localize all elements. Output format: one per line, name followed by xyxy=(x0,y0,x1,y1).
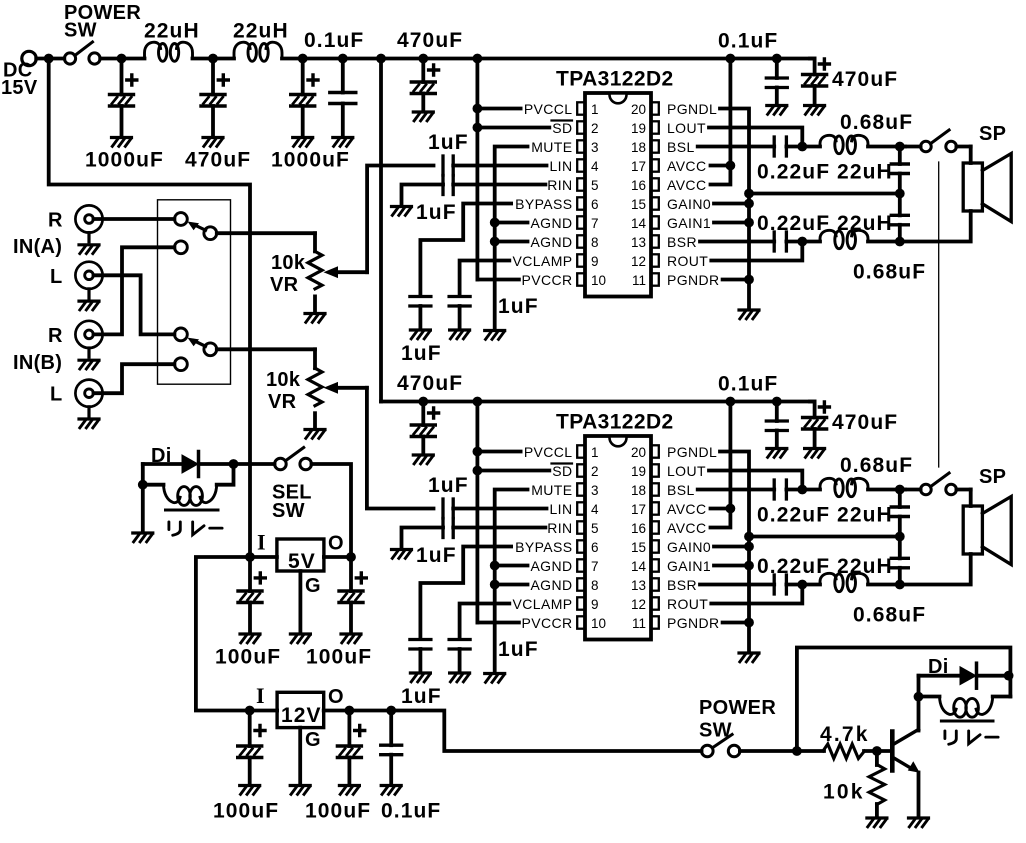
RCA jack L IN(B) xyxy=(75,380,102,416)
svg-text:0.68uF: 0.68uF xyxy=(853,604,926,627)
svg-text:20: 20 xyxy=(631,445,646,460)
wire AVCC feed (upper) xyxy=(711,59,731,185)
contact B1 (L of IN A) xyxy=(175,328,188,341)
relay2 coil right lead xyxy=(993,695,1011,699)
contact A2 (R of IN B) xyxy=(175,241,188,254)
svg-text:MUTE: MUTE xyxy=(531,482,572,498)
svg-text:470uF: 470uF xyxy=(832,411,898,434)
wire PGNDR pin11 (lower) xyxy=(723,621,749,625)
svg-text:18: 18 xyxy=(631,483,646,498)
svg-text:13: 13 xyxy=(631,235,646,250)
wire relay2 diode anode xyxy=(919,674,961,678)
svg-text:RIN: RIN xyxy=(547,520,572,536)
svg-text:VCLAMP: VCLAMP xyxy=(513,253,573,269)
node LOUT/BSL (upper) xyxy=(797,142,807,152)
wire PVCC vertical (upper) xyxy=(475,59,479,280)
node 0.1uF AVCC (lower) xyxy=(772,397,782,407)
node rail split to lower block xyxy=(376,54,386,64)
ground 0.1uF 12V xyxy=(381,786,401,795)
node relay1 coil left xyxy=(138,480,148,490)
svg-text:SP: SP xyxy=(979,123,1006,145)
inductor 22uH ROUT (upper) xyxy=(820,230,868,248)
wire DC input to switch xyxy=(36,57,64,61)
capacitor 0.22uF BSR bootstrap (lower) xyxy=(773,575,776,594)
pin stub 18 (lower) xyxy=(651,483,659,495)
capacitor 0.1uF AVCC (lower) stem xyxy=(775,402,779,422)
svg-text:PVCCR: PVCCR xyxy=(521,272,572,288)
svg-text:1uF: 1uF xyxy=(416,544,457,567)
capacitor 100uF 5V-out stem xyxy=(349,557,353,591)
svg-text:6: 6 xyxy=(591,540,599,555)
pin stub 11 (lower) xyxy=(651,616,659,628)
svg-text:12: 12 xyxy=(631,597,646,612)
node base drive xyxy=(792,746,802,756)
node relay2 coil left xyxy=(914,692,924,702)
capacitor C3 1000uF (stem) xyxy=(301,59,305,95)
svg-text:AVCC: AVCC xyxy=(667,501,706,517)
node filter mid (lower) xyxy=(895,532,905,542)
svg-text:22uH: 22uH xyxy=(144,20,200,43)
wire AGND pin8 (lower) xyxy=(495,583,528,587)
relay2 coil underline xyxy=(941,720,993,723)
wire MUTE to ground (lower) xyxy=(495,490,528,674)
wire 12V to POWER SW xyxy=(391,711,701,752)
node AGND8 (lower) xyxy=(490,580,500,590)
ground jack L IN(A) xyxy=(79,301,99,310)
wire to pin2 SD (upper) xyxy=(477,126,549,130)
wire ROUT pin12 (lower) xyxy=(711,585,802,604)
node GAIN0 (lower) xyxy=(744,542,754,552)
wire to pin2 SD (lower) xyxy=(477,469,549,473)
wire AGND pin7 (upper) xyxy=(495,221,528,225)
inductor 22uH LOUT (upper) xyxy=(820,135,868,153)
capacitor 100uF 5V-in stem xyxy=(248,557,252,591)
capacitor C1 1000uF (stem) xyxy=(120,59,124,95)
wire speaker return (lower) xyxy=(900,554,971,585)
svg-text:SD: SD xyxy=(552,463,572,479)
svg-text:SP: SP xyxy=(979,466,1006,488)
node 12V input xyxy=(245,706,255,716)
svg-text:TPA3122D2: TPA3122D2 xyxy=(556,411,674,434)
svg-text:SW: SW xyxy=(272,500,305,522)
node 470uF rail cap (upper) xyxy=(418,54,428,64)
node 0.1uF 12V xyxy=(386,706,396,716)
pin stub 17 (upper) xyxy=(651,159,659,171)
svg-text:I: I xyxy=(257,530,266,555)
svg-text:0.68uF: 0.68uF xyxy=(853,261,926,284)
wire DC to regulator input xyxy=(49,59,250,558)
ground 100uF 12V-out xyxy=(339,786,359,795)
wire 5V ground lead xyxy=(298,571,302,634)
svg-text:LIN: LIN xyxy=(550,501,573,517)
ground 470uF rail cap (lower) xyxy=(413,455,433,464)
svg-text:17: 17 xyxy=(631,502,646,517)
svg-text:PVCCR: PVCCR xyxy=(521,615,572,631)
svg-text:9: 9 xyxy=(591,254,599,269)
DC input terminal xyxy=(22,51,36,65)
svg-text:100uF: 100uF xyxy=(213,800,279,823)
wire PVCC rail (upper) xyxy=(381,57,815,61)
svg-text:GAIN0: GAIN0 xyxy=(667,539,711,555)
pin stub 4 (lower) xyxy=(577,502,585,514)
svg-text:9: 9 xyxy=(591,597,599,612)
svg-text:RIN: RIN xyxy=(547,177,572,193)
svg-text:1uF: 1uF xyxy=(498,295,539,318)
capacitor 0.22uF BSR bootstrap (upper) xyxy=(773,232,776,251)
pin stub 15 (lower) xyxy=(651,540,659,552)
svg-text:AGND: AGND xyxy=(530,234,572,250)
wire diode to coil xyxy=(917,676,921,697)
svg-text:12V: 12V xyxy=(281,704,322,727)
svg-text:5: 5 xyxy=(591,521,599,536)
node PGNDR (upper) xyxy=(744,275,754,285)
IC TPA3122D2 (upper) xyxy=(585,93,651,297)
pin stub 9 (lower) xyxy=(577,597,585,609)
svg-text:1000uF: 1000uF xyxy=(85,149,164,172)
svg-text:10k: 10k xyxy=(823,781,865,804)
svg-text:AVCC: AVCC xyxy=(667,177,706,193)
wire cap to LIN pin4 (upper) xyxy=(453,164,546,168)
transistor Q1 NPN xyxy=(890,732,895,771)
wire 5V input xyxy=(250,555,277,559)
node GAIN0 (upper) xyxy=(744,199,754,209)
capacitor 1uF RIN (upper) xyxy=(441,176,444,195)
svg-text:14: 14 xyxy=(631,216,647,231)
wire L filter out (lower) xyxy=(868,488,905,492)
svg-text:18: 18 xyxy=(631,140,646,155)
pin stub 9 (upper) xyxy=(577,254,585,266)
relay coil RY2 xyxy=(940,697,993,718)
wire switch to 4.7k xyxy=(740,749,824,753)
wire switch to speaker (upper) xyxy=(956,145,970,149)
svg-text:BSL: BSL xyxy=(667,482,695,498)
pin stub 17 (lower) xyxy=(651,502,659,514)
svg-text:470uF: 470uF xyxy=(185,149,251,172)
relay1 coil underline xyxy=(166,509,219,512)
svg-text:4.7k: 4.7k xyxy=(820,723,870,746)
capacitor 470uF AVCC (upper) stem xyxy=(810,59,815,75)
pin stub 8 (lower) xyxy=(577,578,585,590)
wire 12V input xyxy=(250,709,277,713)
contact A1 (R of IN A) xyxy=(175,213,188,226)
capacitor 1uF RIN (lower) xyxy=(441,519,444,538)
wire to pin10 PVCCR (upper) xyxy=(477,278,519,282)
svg-text:ROUT: ROUT xyxy=(667,596,708,612)
wire 12V loop to relay2 xyxy=(797,648,1011,752)
svg-text:AGND: AGND xyxy=(530,558,572,574)
selector arm arrow (top) xyxy=(194,225,206,231)
ground VR1 xyxy=(305,314,325,323)
node 5V output xyxy=(346,552,356,562)
ground C3 xyxy=(293,138,313,147)
pin stub 16 (upper) xyxy=(651,178,659,190)
svg-text:0.22uF 22uH: 0.22uF 22uH xyxy=(757,161,893,184)
VR2 wiper arrow xyxy=(336,386,367,390)
svg-text:BYPASS: BYPASS xyxy=(515,539,572,555)
ground 100uF 12V-in xyxy=(240,786,260,795)
capacitor 100uF 12V-out stem xyxy=(347,711,351,747)
relay1 coil right lead xyxy=(217,464,234,485)
wire B common to VR2 xyxy=(217,347,315,351)
wire LOUT pin19 (upper) xyxy=(709,128,802,147)
ground 470uF AVCC (upper) xyxy=(805,106,825,115)
svg-text:1: 1 xyxy=(591,445,599,460)
pin stub 5 (lower) xyxy=(577,521,585,533)
node GAIN1 (lower) xyxy=(744,561,754,571)
pin stub 14 (upper) xyxy=(651,216,659,228)
pin stub 6 (lower) xyxy=(577,540,585,552)
wire AVCC feed (lower) xyxy=(711,402,731,528)
ground RIN cap (upper) xyxy=(392,207,412,216)
capacitor 100uF 12V-in stem xyxy=(248,711,252,747)
node 0.1uF AVCC (upper) xyxy=(772,54,782,64)
node 5V input xyxy=(245,552,255,562)
ground BYPASS cap (lower) xyxy=(410,673,430,682)
node L filter out (lower) xyxy=(895,485,905,495)
wire VCLAMP to cap (lower) xyxy=(460,604,510,640)
capacitor 1uF VCLAMP (lower) xyxy=(449,640,470,650)
wire A common to VR1 xyxy=(217,231,315,235)
svg-text:4: 4 xyxy=(591,502,599,517)
ground 12V regulator xyxy=(290,786,310,795)
wire BYPASS to cap (lower) xyxy=(420,547,511,640)
svg-text:AVCC: AVCC xyxy=(667,158,706,174)
potentiometer VR2 10k xyxy=(308,368,322,406)
wire switch to speaker (lower) xyxy=(956,488,970,492)
svg-text:BSR: BSR xyxy=(667,577,697,593)
inductor 22uH ROUT (lower) xyxy=(820,573,868,591)
IC TPA3122D2 (lower) xyxy=(585,436,651,640)
wire diode cathode to SEL SW xyxy=(200,462,275,466)
node SD tap (upper) xyxy=(473,123,483,133)
node relay2 diode/loop xyxy=(1004,671,1014,681)
wire speaker return mid (lower) xyxy=(749,535,900,539)
svg-text:10k: 10k xyxy=(271,252,306,274)
wire R filter out (lower) xyxy=(868,583,900,587)
node AVCC17 (lower) xyxy=(726,504,736,514)
svg-text:VR: VR xyxy=(268,391,297,413)
ground C2 xyxy=(203,138,223,147)
wire 12V output xyxy=(324,709,392,713)
wire 5V output xyxy=(324,555,351,559)
inductor 22uH LOUT (lower) xyxy=(820,478,868,496)
wire to pin1 PVCCL (lower) xyxy=(477,450,520,454)
svg-text:0.68uF: 0.68uF xyxy=(840,111,913,134)
svg-text:G: G xyxy=(305,729,321,751)
svg-text:17: 17 xyxy=(631,159,646,174)
ground 470uF AVCC (lower) xyxy=(805,449,825,458)
svg-text:LOUT: LOUT xyxy=(667,463,706,479)
svg-text:3: 3 xyxy=(591,483,599,498)
wire AVCC pin17 (lower) xyxy=(711,507,731,511)
wire LOUT pin19 (lower) xyxy=(709,471,802,490)
svg-text:4: 4 xyxy=(591,159,599,174)
wire PVCC vertical (lower) xyxy=(475,402,479,623)
wire L2 to rail xyxy=(282,57,381,61)
node ROUT/BSR (upper) xyxy=(797,237,807,247)
relay coil RY1 xyxy=(164,485,217,506)
wire 4.7k to base xyxy=(864,749,890,753)
VR1 bottom lead xyxy=(313,296,317,313)
pin stub 10 (lower) xyxy=(577,616,585,628)
node base/10k xyxy=(872,746,882,756)
svg-text:1uF: 1uF xyxy=(416,201,457,224)
ground 100uF 5V-in xyxy=(240,634,260,643)
wire AGND pin7 (lower) xyxy=(495,564,528,568)
RCA jack R IN(B) xyxy=(75,321,102,357)
svg-text:1000uF: 1000uF xyxy=(271,149,350,172)
svg-text:1uF: 1uF xyxy=(498,638,539,661)
node PVCCL tap (lower) xyxy=(473,447,483,457)
regulator 12V xyxy=(277,692,324,727)
switch POWER SW (top) xyxy=(64,53,75,64)
regulator 5V xyxy=(277,539,324,571)
capacitor C4 0.1uF (stem) xyxy=(341,59,345,93)
wire emitter to ground xyxy=(917,773,921,818)
pin stub 8 (upper) xyxy=(577,235,585,247)
VR1 top lead xyxy=(313,233,317,251)
ground PGND bus (lower) xyxy=(739,653,759,662)
inductor L1 22uH xyxy=(145,42,193,61)
switch SP (upper) xyxy=(921,141,932,152)
contact A common xyxy=(204,227,217,240)
node 470uF rail cap (lower) xyxy=(418,397,428,407)
svg-text:0.1uF: 0.1uF xyxy=(718,30,778,53)
svg-text:0.1uF: 0.1uF xyxy=(304,29,364,52)
node GAIN1 (upper) xyxy=(744,218,754,228)
svg-text:7: 7 xyxy=(591,559,599,574)
wire GAIN0 pin15 (upper) xyxy=(714,202,749,206)
capacitor 0.1uF AVCC (upper) stem xyxy=(775,59,779,79)
svg-text:470uF: 470uF xyxy=(397,372,463,395)
pin stub 14 (lower) xyxy=(651,559,659,571)
node C1 top xyxy=(117,54,127,64)
svg-text:LIN: LIN xyxy=(550,158,573,174)
RCA jack L IN(A) xyxy=(75,262,102,298)
pin stub 6 (upper) xyxy=(577,197,585,209)
pin stub 20 (upper) xyxy=(651,102,659,114)
node R filter out (lower) xyxy=(895,580,905,590)
wire GAIN1 pin14 (lower) xyxy=(714,564,749,568)
svg-text:10: 10 xyxy=(591,616,606,631)
wire PVCC rail (lower) xyxy=(381,400,815,404)
capacitor 0.68uF R (upper) lead xyxy=(898,174,902,216)
pin stub 1 (lower) xyxy=(577,445,585,457)
node speaker return tap (upper) xyxy=(744,189,754,199)
svg-text:L: L xyxy=(50,266,63,288)
inductor L2 22uH xyxy=(234,42,282,61)
pin stub 7 (lower) xyxy=(577,559,585,571)
node speaker return tap (lower) xyxy=(744,532,754,542)
wire RIN cap to ground (lower) xyxy=(402,528,444,550)
svg-text:1uF: 1uF xyxy=(428,131,469,154)
svg-text:G: G xyxy=(305,575,321,597)
wire BSL pin18 (upper) xyxy=(698,145,775,149)
node relay1 coil/diode xyxy=(229,459,239,469)
svg-text:GAIN1: GAIN1 xyxy=(667,215,711,231)
ground 100uF 5V-out xyxy=(341,634,361,643)
pin stub 13 (lower) xyxy=(651,578,659,590)
svg-text:GAIN0: GAIN0 xyxy=(667,196,711,212)
svg-text:100uF: 100uF xyxy=(215,646,281,669)
selector arm arrow (bottom) xyxy=(194,341,206,347)
svg-text:O: O xyxy=(328,533,344,555)
wire switch to L1 xyxy=(100,57,144,61)
wire VR1 wiper to upper LIN cap xyxy=(367,166,433,273)
node AVCC rail tap (lower) xyxy=(726,397,736,407)
wire PGNDL/ground bus (upper) xyxy=(720,109,749,310)
wire MUTE to ground (upper) xyxy=(495,147,528,331)
pin stub 2 (upper) xyxy=(577,121,585,133)
ganged switch link line xyxy=(938,162,940,467)
svg-text:R: R xyxy=(48,210,63,232)
wire rail feed down to lower amp block xyxy=(379,59,383,402)
svg-text:15: 15 xyxy=(631,197,646,212)
svg-text:SW: SW xyxy=(64,20,97,42)
wire jack L(A) to B1 xyxy=(94,275,175,334)
capacitor 470uF AVCC (lower) stem xyxy=(810,402,815,418)
label relay (katakana) RY2 xyxy=(945,731,998,744)
svg-text:TPA3122D2: TPA3122D2 xyxy=(556,68,674,91)
ground 10k xyxy=(867,818,887,827)
wire R filter out (upper) xyxy=(868,240,900,244)
wire cap to LIN pin4 (lower) xyxy=(453,507,546,511)
svg-text:PGNDR: PGNDR xyxy=(667,615,720,631)
ground 0.1uF AVCC (lower) xyxy=(767,449,787,458)
relay1 coil left lead xyxy=(143,483,164,487)
switch SEL SW xyxy=(275,458,287,470)
node C3 top xyxy=(298,54,308,64)
node AVCC rail tap (upper) xyxy=(726,54,736,64)
svg-text:470uF: 470uF xyxy=(832,68,898,91)
svg-text:PVCCL: PVCCL xyxy=(524,101,573,117)
capacitor 0.68uF L (upper) lead xyxy=(898,147,902,165)
switch POWER SW (bottom) xyxy=(702,745,714,757)
pin stub 19 (upper) xyxy=(651,121,659,133)
VR2 top lead xyxy=(313,349,317,368)
VR1 wiper arrow xyxy=(336,270,367,274)
capacitor 1uF LIN input (upper) xyxy=(441,156,444,175)
node LOUT/BSL (lower) xyxy=(797,485,807,495)
svg-text:10k: 10k xyxy=(266,369,301,391)
capacitor 470uF rail (lower) stem xyxy=(421,402,425,426)
svg-text:15: 15 xyxy=(631,540,646,555)
ground jack R IN(B) xyxy=(79,360,99,369)
potentiometer VR1 10k xyxy=(308,251,322,289)
capacitor 0.22uF BSL bootstrap (upper) xyxy=(773,137,776,156)
svg-text:1uF: 1uF xyxy=(428,474,469,497)
svg-text:I: I xyxy=(256,683,265,708)
wire GAIN1 pin14 (upper) xyxy=(714,221,749,225)
ground MUTE/AGND (lower) xyxy=(485,674,505,683)
resistor 10k xyxy=(869,765,885,805)
wire PGNDR pin11 (upper) xyxy=(723,278,749,282)
svg-text:VCLAMP: VCLAMP xyxy=(513,596,573,612)
wire BSR pin13 (lower) xyxy=(700,583,774,587)
wire VCLAMP to cap (upper) xyxy=(460,261,510,297)
switch SP (lower) xyxy=(921,484,932,495)
svg-text:0.1uF: 0.1uF xyxy=(381,800,441,823)
svg-text:5: 5 xyxy=(591,178,599,193)
SD overline (lower) xyxy=(552,462,573,464)
VR2 bottom lead xyxy=(313,413,317,429)
capacitor 1uF VCLAMP (upper) xyxy=(449,297,470,307)
speaker SP (upper) xyxy=(963,163,982,211)
svg-text:20: 20 xyxy=(631,102,646,117)
node AGND8 (upper) xyxy=(490,237,500,247)
wire AVCC pin17 (upper) xyxy=(711,164,731,168)
wire relay2 diode cathode xyxy=(977,674,1010,678)
